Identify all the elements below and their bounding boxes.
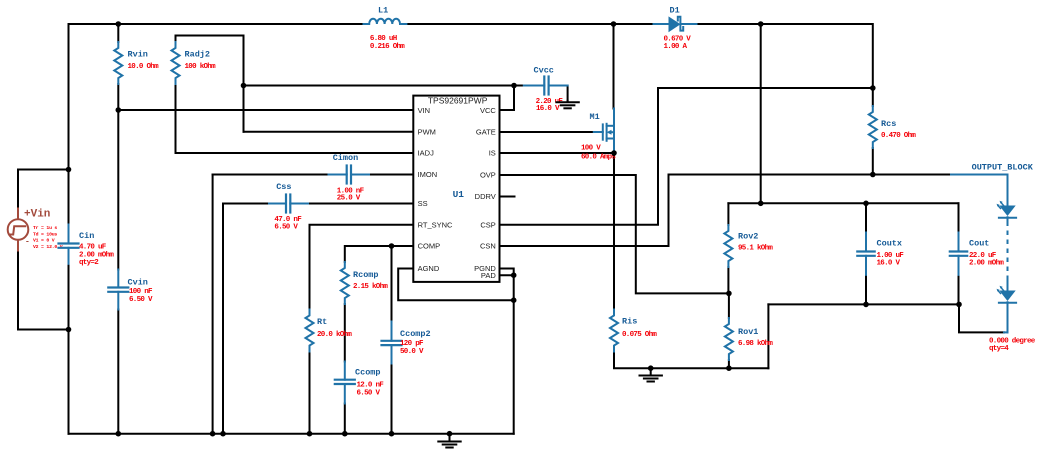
wire IMON net left column to ground bus xyxy=(212,175,214,434)
wire Rcs top lead xyxy=(872,88,874,106)
wire IS to M1 source node xyxy=(500,152,615,154)
wire top bus from input to L1 xyxy=(69,23,364,25)
wire Vin source branch bottom xyxy=(18,252,69,330)
svg-text:qty=4: qty=4 xyxy=(989,345,1009,353)
wire Rov1 top lead xyxy=(728,293,730,318)
resistor Rov1 xyxy=(725,318,733,360)
svg-text:Rov1: Rov1 xyxy=(738,327,758,337)
wire Rcomp bottom to Ccomp xyxy=(344,304,346,362)
wire output bottom bus xyxy=(768,303,959,305)
wire Cout top lead xyxy=(958,203,960,232)
svg-text:GATE: GATE xyxy=(476,128,496,137)
wire Rcs bottom lead xyxy=(872,148,874,175)
wire SS net to Css xyxy=(223,203,269,205)
wire Rt bottom to ground bus xyxy=(309,352,311,434)
svg-text:V1 = 0 V: V1 = 0 V xyxy=(33,238,55,244)
capacitor Cvcc xyxy=(524,85,545,87)
svg-text:AGND: AGND xyxy=(418,264,440,273)
ground at power ground bus xyxy=(650,368,652,375)
svg-text:0.075 Ohm: 0.075 Ohm xyxy=(622,331,657,339)
wire Rov2 top lead xyxy=(727,203,729,225)
wire Radj2 bottom to IADJ xyxy=(176,84,414,153)
svg-text:Cimon: Cimon xyxy=(333,153,359,163)
wire VCC net: PWM column to Cvcc xyxy=(244,85,524,87)
svg-text:2.00 mOhm: 2.00 mOhm xyxy=(969,259,1004,267)
svg-text:CSN: CSN xyxy=(480,242,496,251)
wire COMP node down to Ccomp2 xyxy=(391,246,393,322)
wire Vin source branch top xyxy=(18,170,69,208)
capacitor Ccomp xyxy=(344,362,346,380)
wire Cvin bottom to ground bus xyxy=(117,310,119,434)
capacitor Ccomp2 xyxy=(391,322,393,341)
wire IS node down to Ris xyxy=(613,153,615,310)
capacitor Cin xyxy=(68,225,70,244)
wire PGND to ground column xyxy=(500,269,514,434)
resistor Rcs xyxy=(869,106,877,148)
svg-text:6.50 V: 6.50 V xyxy=(274,224,298,232)
wire Rov2 bottom lead xyxy=(727,267,729,293)
wire Coutx bottom lead xyxy=(865,275,867,305)
wire Rov1 bottom lead xyxy=(728,360,730,368)
svg-text:SS: SS xyxy=(418,199,428,208)
wire L1 to M1 drain node (SW) xyxy=(406,23,653,25)
wire CSN sense riser xyxy=(500,175,669,247)
svg-text:Ccomp: Ccomp xyxy=(355,368,381,378)
ground at analog ground bus xyxy=(449,434,451,441)
wire Cimon to U1 IMON pin xyxy=(369,174,413,176)
svg-text:-: - xyxy=(25,238,30,247)
wire output top bus xyxy=(728,202,958,204)
svg-text:TPS92691PWP: TPS92691PWP xyxy=(428,96,488,106)
svg-text:6.98 kOhm: 6.98 kOhm xyxy=(738,340,773,348)
svg-text:100 nF: 100 nF xyxy=(129,288,153,296)
wire Ris bottom to power ground bus xyxy=(614,352,768,369)
resistor Rcomp xyxy=(341,262,349,304)
svg-text:120 pF: 120 pF xyxy=(400,340,424,348)
svg-text:Coutx: Coutx xyxy=(877,238,903,248)
wire COMP to Rcomp xyxy=(345,246,414,262)
svg-text:50.0 V: 50.0 V xyxy=(400,348,424,356)
svg-text:6.50 V: 6.50 V xyxy=(129,296,153,304)
svg-text:Tr = 1u s: Tr = 1u s xyxy=(33,225,57,231)
svg-text:Rcs: Rcs xyxy=(881,119,896,129)
transistor M1 NMOS xyxy=(594,131,603,133)
svg-text:2.15 kOhm: 2.15 kOhm xyxy=(353,283,388,291)
svg-text:6.80 uH: 6.80 uH xyxy=(370,35,397,43)
svg-text:Cvin: Cvin xyxy=(128,278,148,288)
wire AGND return xyxy=(398,269,514,301)
svg-text:Td = 10us: Td = 10us xyxy=(33,231,57,237)
svg-text:Rov2: Rov2 xyxy=(738,231,758,241)
svg-text:25.0 V: 25.0 V xyxy=(337,194,361,202)
svg-text:+Vin: +Vin xyxy=(24,209,50,221)
svg-text:IMON: IMON xyxy=(418,170,438,179)
resistor Ris xyxy=(610,310,618,352)
svg-text:60.0 Amps: 60.0 Amps xyxy=(581,154,616,162)
resistor Rt xyxy=(306,310,314,352)
svg-text:qty=2: qty=2 xyxy=(79,259,99,267)
voltage source Vin xyxy=(17,208,19,220)
wire M1 drain to SW node xyxy=(613,24,615,109)
wire LED2 cathode return xyxy=(959,304,1004,332)
wire D1 cathode to Rcs top corner xyxy=(697,24,873,88)
wire Rvin top connection xyxy=(117,24,119,42)
IC U1 TPS92691PWP xyxy=(413,96,499,282)
wire OVP to resistor divider tap xyxy=(500,175,729,293)
svg-text:Ccomp2: Ccomp2 xyxy=(400,329,431,339)
wire left input rail (below Cin) xyxy=(68,264,70,434)
wire PAD to ground column xyxy=(500,274,514,276)
svg-text:Radj2: Radj2 xyxy=(185,50,211,60)
svg-text:IADJ: IADJ xyxy=(418,149,435,158)
svg-text:Cvcc: Cvcc xyxy=(534,65,554,75)
svg-text:U1: U1 xyxy=(453,189,465,200)
svg-text:OVP: OVP xyxy=(480,171,496,180)
svg-text:4.70 uF: 4.70 uF xyxy=(79,244,107,252)
junction dots xyxy=(116,21,122,27)
resistor Rvin xyxy=(114,42,122,84)
capacitor Coutx xyxy=(865,233,867,252)
svg-text:10.0 Ohm: 10.0 Ohm xyxy=(128,63,160,71)
svg-text:L1: L1 xyxy=(378,6,388,16)
inductor L1 xyxy=(364,19,407,24)
svg-text:16.0 V: 16.0 V xyxy=(877,259,901,267)
wire VIN node down to Cvin xyxy=(117,110,119,270)
wire Ccomp bottom to ground bus xyxy=(344,404,346,434)
capacitor Cout xyxy=(958,233,960,252)
svg-text:PWM: PWM xyxy=(418,128,436,137)
svg-text:100 kOhm: 100 kOhm xyxy=(185,63,217,71)
svg-text:Cout: Cout xyxy=(969,238,989,248)
wire Cvcc right to ground xyxy=(567,86,569,101)
wire Cout bottom lead xyxy=(958,275,960,305)
svg-text:M1: M1 xyxy=(590,112,600,122)
capacitor Cvin xyxy=(117,270,119,288)
wire Rvin bottom to VIN node xyxy=(117,84,119,110)
wire VCC pin riser xyxy=(500,86,515,111)
wire VIN node to U1 VIN pin xyxy=(118,109,413,111)
svg-text:D1: D1 xyxy=(670,6,680,16)
svg-text:Rvin: Rvin xyxy=(128,50,148,60)
wire DDRV stub xyxy=(500,196,515,198)
wire GATE to M1 gate xyxy=(500,131,594,133)
wire Radj2 top loop to PWM/VCC column xyxy=(176,36,244,132)
wire left input rail (top) xyxy=(68,24,70,225)
wire RT_SYNC to Rt xyxy=(310,225,414,310)
wire Ccomp2 bottom to ground bus xyxy=(391,364,393,434)
wire Coutx top lead xyxy=(865,203,867,232)
svg-text:VIN: VIN xyxy=(418,106,431,115)
wire dashed LED string continuation xyxy=(1007,222,1009,278)
svg-text:VCC: VCC xyxy=(480,106,496,115)
svg-text:0.470 Ohm: 0.470 Ohm xyxy=(881,132,916,140)
wire CSP sense to Rcs top xyxy=(500,88,873,225)
svg-text:Rt: Rt xyxy=(317,317,327,327)
svg-text:100 V: 100 V xyxy=(581,145,601,153)
svg-text:6.50 V: 6.50 V xyxy=(357,390,381,398)
wire LED return riser xyxy=(767,304,769,368)
LED D3 bottom of output string xyxy=(1007,278,1009,291)
svg-text:0.216 Ohm: 0.216 Ohm xyxy=(370,43,405,51)
svg-text:Cin: Cin xyxy=(79,231,94,241)
ground at Cvcc xyxy=(567,100,569,103)
wire PWM node to U1 PWM pin xyxy=(244,131,414,133)
wire D1 cathode column to output top bus xyxy=(760,24,762,203)
svg-text:95.1 kOhm: 95.1 kOhm xyxy=(738,245,773,253)
wire Css to U1 SS pin xyxy=(308,203,413,205)
svg-text:1.00 A: 1.00 A xyxy=(664,43,688,51)
svg-text:12.0 nF: 12.0 nF xyxy=(357,382,385,390)
svg-text:DDRV: DDRV xyxy=(475,192,496,201)
capacitor Cimon xyxy=(329,174,347,176)
wire SS net left column to ground bus xyxy=(222,204,224,434)
svg-text:20.0 kOhm: 20.0 kOhm xyxy=(317,331,352,339)
capacitor Css xyxy=(269,203,286,205)
svg-text:RT_SYNC: RT_SYNC xyxy=(418,220,453,229)
svg-text:Css: Css xyxy=(276,182,291,192)
svg-text:COMP: COMP xyxy=(418,242,441,251)
svg-text:16.0 V: 16.0 V xyxy=(536,105,560,113)
svg-text:PAD: PAD xyxy=(481,271,496,280)
svg-text:OUTPUT_BLOCK: OUTPUT_BLOCK xyxy=(972,162,1034,172)
LED D2 top of output string xyxy=(1007,196,1009,206)
wire CSN / LED+ rail to output block xyxy=(669,174,952,176)
wire analog ground bus xyxy=(69,433,514,435)
resistor Radj2 xyxy=(172,42,180,84)
resistor Rov2 xyxy=(724,225,732,267)
svg-text:Rcomp: Rcomp xyxy=(353,270,379,280)
wire IMON net to Cimon xyxy=(213,174,329,176)
svg-text:Ris: Ris xyxy=(622,317,637,327)
diode D1 schottky xyxy=(654,23,669,25)
svg-text:IS: IS xyxy=(489,149,496,158)
svg-text:CSP: CSP xyxy=(480,220,495,229)
